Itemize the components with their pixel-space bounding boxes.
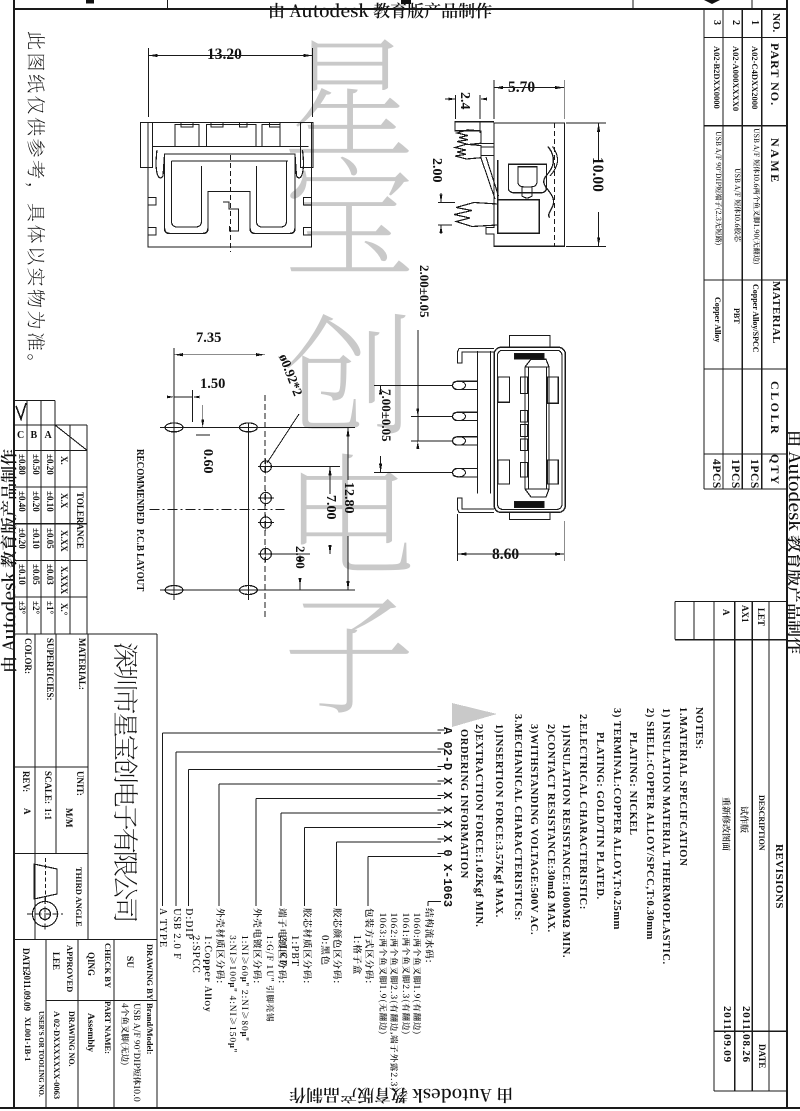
dim 2.00 side bbox=[438, 201, 455, 203]
back view top L strip bbox=[457, 349, 494, 363]
front view top tabs bbox=[181, 123, 193, 128]
pcb layout slots bbox=[165, 423, 183, 432]
company name bbox=[113, 642, 139, 920]
Autodesk educational stamp bottom (rotated 180) bbox=[289, 1088, 513, 1105]
DATE cell bbox=[21, 948, 30, 975]
pcb pin holes bbox=[260, 461, 271, 472]
page frame right border bbox=[786, 0, 788, 1108]
tolerance table grid bbox=[14, 400, 55, 402]
dim 10.00 bbox=[566, 122, 606, 124]
watermark char 星 bbox=[283, 23, 415, 155]
back view pins bbox=[453, 381, 478, 389]
front view left leg inner bbox=[172, 161, 202, 227]
watermark char 子 bbox=[283, 580, 415, 712]
DRAWING NO cell bbox=[67, 1011, 75, 1067]
front view top flange bbox=[141, 122, 314, 124]
back view top/bottom inner bars bbox=[514, 353, 544, 359]
DRAWING BY SU bbox=[146, 944, 155, 1000]
check mark bbox=[16, 403, 26, 419]
watermark char 创 bbox=[283, 301, 415, 433]
third angle projection symbol circles bbox=[33, 902, 58, 927]
back view pin carrier bbox=[477, 351, 479, 494]
title block MATERIAL bbox=[77, 638, 86, 690]
front view left wing bbox=[141, 123, 153, 168]
tolerance values bbox=[45, 454, 54, 475]
revision row A bbox=[721, 609, 730, 616]
side view top tab bbox=[455, 122, 494, 131]
pcb pin centerline dashed bbox=[264, 395, 266, 620]
dim Ø0.92*2 leader bbox=[267, 414, 299, 463]
side view inner block bbox=[498, 200, 540, 233]
front view right hook bbox=[295, 150, 303, 178]
front view center dashed line bbox=[230, 155, 232, 252]
page frame top border bbox=[14, 8, 787, 10]
Brand/Model cell bbox=[145, 1003, 154, 1054]
front view top windows bbox=[175, 125, 199, 147]
page frame bottom border bbox=[0, 1107, 800, 1109]
side view upper fish fork 2 bbox=[455, 144, 481, 159]
dim 1.50 bbox=[192, 390, 194, 422]
ordering labels bbox=[159, 908, 169, 948]
side view neck strip bbox=[479, 123, 481, 133]
title block grid bbox=[14, 633, 157, 635]
parts table row 1 bbox=[749, 20, 759, 25]
watermark char 电 bbox=[283, 441, 415, 573]
ordering code line bbox=[441, 727, 453, 907]
front view right wing bbox=[301, 123, 314, 168]
tolerance table diagonal cell bbox=[55, 425, 87, 450]
dim 2.4 bbox=[455, 95, 457, 119]
dim 7.35 bbox=[173, 348, 175, 422]
side view lower fish fork bbox=[454, 203, 498, 227]
dim 7.00±0.05 bbox=[374, 384, 453, 386]
REV A bbox=[21, 771, 30, 792]
tolerance table title bbox=[75, 492, 84, 549]
parts table row 2 bbox=[730, 20, 740, 25]
revision row AX1 bbox=[740, 605, 749, 623]
back view contact slots bbox=[520, 377, 527, 394]
tolerance row labels bbox=[17, 431, 24, 441]
RECOMMENDED PCB LAYOUT label bbox=[133, 449, 144, 591]
USER S OR TOOLING NO cell bbox=[37, 1011, 44, 1097]
front view side notches bbox=[148, 198, 156, 206]
CHECK BY QING bbox=[104, 943, 113, 988]
dim 0.60 bbox=[202, 405, 204, 427]
Autodesk educational stamp right margin (rotated 90) bbox=[788, 430, 800, 654]
Autodesk educational stamp top bbox=[268, 1, 492, 18]
dim 13.20 bbox=[148, 48, 150, 117]
back view tongue bbox=[525, 359, 549, 497]
dim 5.70 bbox=[493, 80, 495, 119]
side view upper fish fork 1 bbox=[457, 130, 481, 145]
back view shell bbox=[494, 347, 565, 512]
THIRD ANGLE text bbox=[74, 867, 83, 927]
side view dashed hidden line bbox=[554, 123, 556, 246]
SCALE 1:1 bbox=[43, 771, 52, 804]
parts table row 3 bbox=[711, 20, 721, 25]
front view left hook bbox=[156, 150, 164, 178]
third angle projection symbol cone bbox=[34, 864, 57, 899]
PART NAME Assembly bbox=[104, 1001, 113, 1054]
parts table headers bbox=[770, 13, 781, 32]
dim 2.00±0.05 bbox=[411, 415, 453, 417]
back view top tab bbox=[510, 335, 550, 347]
top strip remnant ticks bbox=[167, 0, 169, 9]
dim 7.00 pcb bbox=[266, 466, 340, 468]
tolerance headers bbox=[59, 456, 68, 465]
back view bottom tab bbox=[510, 512, 550, 519]
page frame left border bbox=[13, 0, 15, 1108]
revisions table header REVISIONS bbox=[773, 844, 784, 909]
revisions table grid bbox=[713, 602, 715, 1092]
leader for X-1063 structure code bbox=[428, 901, 441, 903]
side view contact slot bbox=[508, 164, 546, 193]
SUPERFICIES bbox=[45, 638, 54, 701]
ordering information leader lines bbox=[163, 732, 442, 734]
dim 8.60 bbox=[456, 514, 458, 561]
parts table grid bbox=[703, 9, 705, 489]
dim 12.80 bbox=[248, 426, 355, 428]
UNIT M/M bbox=[75, 771, 84, 796]
front view center notch bbox=[223, 202, 239, 231]
back view wall notches bbox=[498, 377, 510, 402]
front view right leg inner bbox=[257, 161, 287, 227]
front view body bbox=[148, 123, 312, 248]
APPROVED LEE bbox=[66, 945, 75, 992]
side view diagonal strut bbox=[481, 158, 495, 199]
front view fork legs outline bbox=[165, 154, 296, 234]
dim 2.00 pcb bbox=[266, 553, 310, 555]
notes block bbox=[693, 707, 704, 750]
side view body bbox=[486, 123, 565, 246]
COLOR bbox=[23, 638, 32, 674]
Autodesk educational stamp left margin (rotated -90) bbox=[0, 449, 16, 673]
back view bottom L strip bbox=[457, 498, 494, 512]
watermark char 宝 bbox=[283, 144, 415, 276]
pcb layout slot lines bbox=[173, 410, 175, 600]
front view fork web inner line bbox=[172, 160, 289, 162]
left margin note 此图纸仅供参考 bbox=[27, 31, 46, 375]
side view spring contact bbox=[544, 147, 554, 218]
